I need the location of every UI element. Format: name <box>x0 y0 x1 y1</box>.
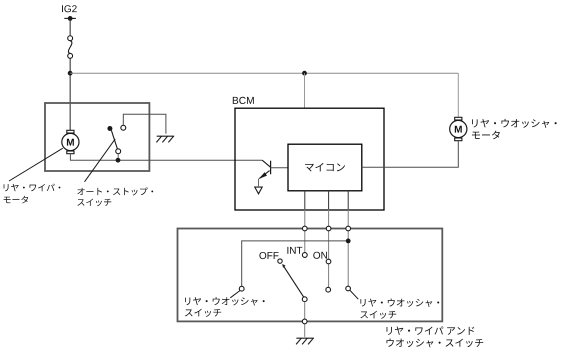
junction dot washer feed <box>346 239 351 244</box>
wire pin ON <box>328 191 330 210</box>
rear wiper and washer switch box <box>178 229 443 322</box>
label rear washer switch (left) <box>185 297 265 305</box>
wire feed down to washer motor <box>457 73 459 117</box>
auto-stop switch pivot dot <box>107 126 112 131</box>
INT contact <box>302 253 307 258</box>
common contact <box>302 297 307 302</box>
pointer to auto-stop switch <box>85 139 116 182</box>
position labels <box>259 252 278 259</box>
BCM box <box>235 108 384 210</box>
auto-stop fixed contact <box>121 125 126 130</box>
label rear washer switch (right) <box>360 299 439 307</box>
motor M rear washer <box>455 117 462 120</box>
washer contact left <box>239 286 244 291</box>
label rear wiper motor <box>4 184 61 192</box>
open arrow (to ground) <box>255 187 262 194</box>
wire top feed horizontal <box>70 72 458 74</box>
connector circle box bottom <box>302 319 307 324</box>
label rear wiper and washer switch <box>387 326 475 334</box>
BCM label <box>233 97 254 104</box>
connector circles on box top edge <box>302 226 307 231</box>
motor M rear wiper <box>67 130 74 133</box>
junction dot feed split <box>68 71 73 76</box>
ground (switch) <box>296 337 314 339</box>
wiper switch lever with arrow <box>284 266 304 297</box>
wire washer feed horizontal <box>242 241 349 287</box>
IG2 feed tick <box>64 17 76 19</box>
node IG2 label <box>62 5 77 12</box>
wiper assembly box <box>45 103 149 171</box>
transistor Q1 (BCM input stage) <box>262 160 270 167</box>
label auto stop switch <box>77 187 153 195</box>
junction dot auto-stop common <box>116 158 121 163</box>
wire micon to washer motor <box>362 141 459 167</box>
ground (wiper box) <box>157 135 175 137</box>
wire motor bottom to BCM <box>70 154 262 161</box>
pointer to left washer contact <box>230 291 240 298</box>
IG2 junction dot <box>68 16 73 21</box>
OFF contact <box>278 259 282 263</box>
wire pin washer <box>347 191 349 210</box>
wire common down <box>304 302 306 337</box>
pointer to right washer contact <box>350 290 358 299</box>
ON contact <box>326 259 331 264</box>
junction dot to BCM <box>302 71 307 76</box>
auto-stop moving contact <box>117 154 119 158</box>
fuse/circuit-breaker F1 <box>68 36 73 41</box>
wire feed down to BCM top <box>304 73 306 108</box>
wire IG2 to fuse <box>69 18 71 35</box>
wire fuse down into wiper box <box>69 58 71 130</box>
wire pin INT <box>304 191 306 210</box>
auto-stop switch lever <box>111 130 117 149</box>
pointer to wiper motor <box>9 148 63 181</box>
microcomputer box <box>288 144 362 191</box>
wire auto-stop to ground <box>123 114 166 133</box>
wire emitter down <box>258 179 260 187</box>
washer contact mid <box>326 287 331 292</box>
washer contact right <box>346 286 351 291</box>
